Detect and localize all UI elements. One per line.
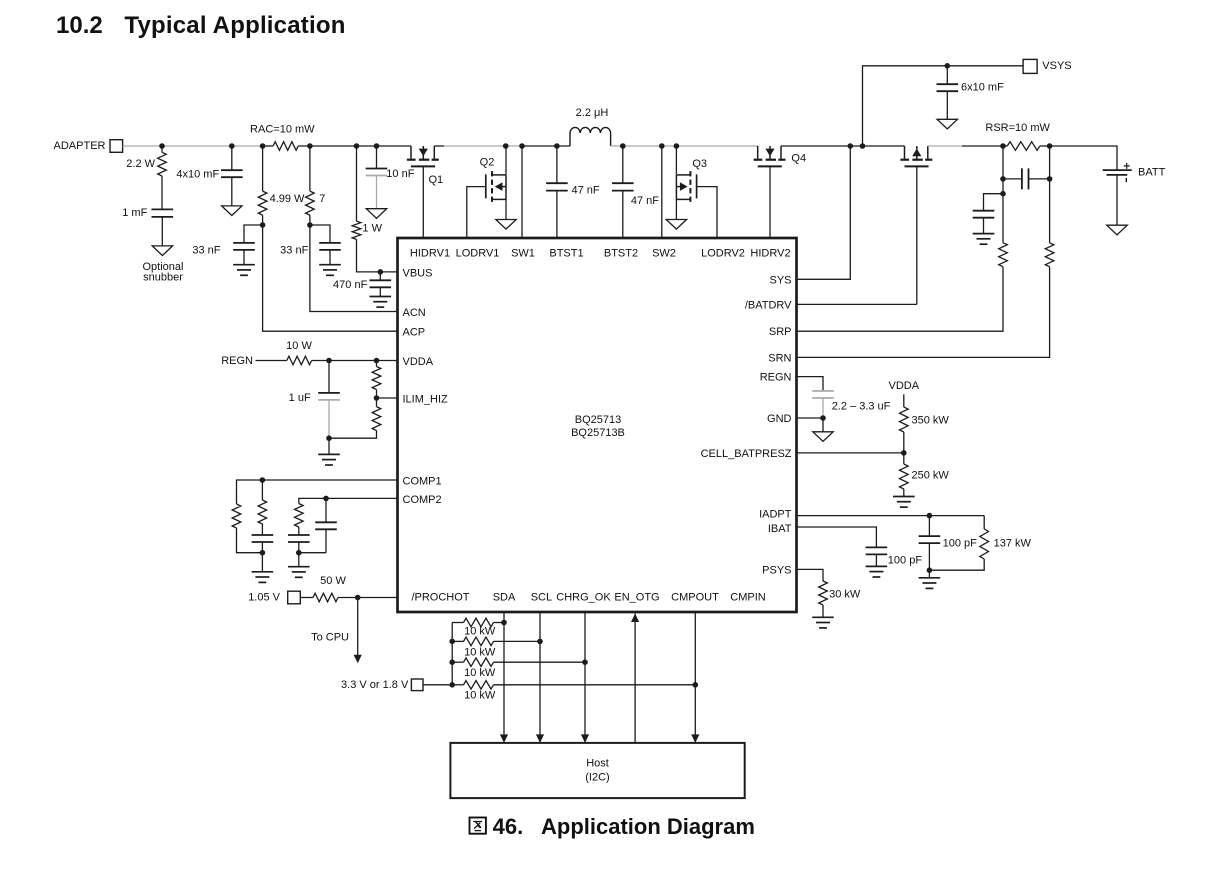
svg-text:BQ25713B: BQ25713B [571, 427, 625, 439]
resistor SRP series [999, 243, 1008, 267]
resistor 10 kW CHRG_OK [464, 658, 494, 667]
caption figure 46 [470, 814, 755, 839]
node SRN cap junction [1047, 176, 1053, 182]
svg-text:ADAPTER: ADAPTER [54, 140, 106, 152]
wire SRN [797, 267, 1050, 358]
wire SRP [797, 267, 1004, 332]
pin label CMPOUT [671, 592, 719, 604]
svg-text:33 nF: 33 nF [280, 245, 308, 257]
svg-text:SW2: SW2 [652, 248, 676, 260]
capacitor 47 nF b [612, 183, 634, 190]
svg-text:HIDRV1: HIDRV1 [410, 248, 450, 260]
node rail-1W junction [354, 143, 360, 149]
node IADPT ground junction [927, 567, 933, 573]
transistor Q4 [754, 146, 786, 166]
wire COMP1 [237, 480, 398, 504]
label RSR=10 mW [985, 122, 1050, 134]
node rail-bulkcap junction [229, 143, 235, 149]
pin label CMPIN [730, 592, 766, 604]
wire VSYS riser [863, 66, 1023, 146]
svg-text:VSYS: VSYS [1042, 60, 1071, 72]
wire Q3 drain [675, 146, 677, 175]
wire RSR leads [1003, 145, 1050, 147]
svg-text:CHRG_OK: CHRG_OK [556, 592, 611, 604]
pin label BTST2 [604, 248, 638, 260]
resistor COMP1 a [232, 504, 241, 528]
node IADPT junction [927, 513, 933, 519]
svg-text:10 kW: 10 kW [464, 646, 496, 658]
node Q3 drain junction [674, 143, 680, 149]
node SYS rail junction [848, 143, 854, 149]
node VSYS cap junction [945, 63, 951, 69]
node VDDA cap junction [326, 358, 332, 364]
wire IBAT [797, 527, 877, 547]
svg-text:4x10 mF: 4x10 mF [176, 168, 219, 180]
ground snubber [152, 246, 172, 256]
wire Q1 gate to HIDRV1 [422, 166, 424, 238]
node ACP filter junction [260, 222, 266, 228]
pin label HIDRV2 [750, 248, 790, 260]
resistor 250 kW [900, 464, 909, 489]
wire pull-up row SCL [452, 640, 540, 642]
wire 1W branch upper [356, 146, 358, 221]
node GND junction [820, 415, 826, 421]
svg-text:LODRV2: LODRV2 [701, 248, 745, 260]
wire COMP2 bottom link [299, 552, 326, 554]
svg-text:GND: GND [767, 413, 792, 425]
node RSR left junction [1000, 143, 1006, 149]
wire PSYS [797, 569, 824, 581]
svg-text:VBUS: VBUS [403, 267, 433, 279]
inductor 2.2 uH [570, 127, 611, 146]
ground 33 nF a [233, 265, 255, 276]
capacitor 47 nF a [546, 183, 568, 190]
resistor 7 [306, 191, 315, 215]
wire 33 nF b to ground [329, 250, 331, 265]
wire pull-up bus [451, 623, 453, 685]
label 33 nF a [192, 245, 220, 257]
capacitor 33 nF a [233, 243, 255, 250]
pin label SCL [531, 592, 552, 604]
arrow EN_OTG into IC [631, 614, 639, 623]
wire Q2 drain [505, 146, 507, 175]
wire COMP2 a lower [298, 542, 300, 553]
resistor ILIM upper [372, 367, 381, 390]
pin label SW2 [652, 248, 676, 260]
pin label SW1 [511, 248, 535, 260]
resistor RAC [273, 142, 298, 151]
wire Q2 gate to LODRV1 [467, 187, 486, 238]
node pull-up bus junction 3 [449, 682, 455, 688]
pin label SRN [768, 352, 791, 364]
wire SW1 [521, 146, 523, 238]
wire COMP2 [299, 498, 398, 503]
label Host (I2C) [585, 757, 609, 783]
wire ILIM mid [376, 390, 378, 407]
node SDA junction [501, 620, 507, 626]
wire COMP1 cap lower [261, 542, 263, 553]
wire COMP1 a lower [237, 528, 263, 553]
label 10 kW SCL [464, 646, 496, 658]
resistor 30 kW [819, 581, 828, 605]
node 1 uF bottom junction [326, 435, 332, 441]
resistor SRN series [1045, 243, 1054, 267]
wire CELL_BATPRESZ [797, 452, 904, 454]
label 2.2 W [126, 158, 155, 170]
arrow to CPU [354, 655, 362, 664]
label 1 W [362, 222, 382, 234]
svg-text:137 kW: 137 kW [994, 538, 1032, 550]
wire ACN branch upper [309, 146, 311, 191]
svg-text:IBAT: IBAT [768, 523, 792, 535]
wire rail to BATT [1050, 146, 1117, 170]
resistor 10 W [287, 356, 312, 365]
wire IADPT cap stub [928, 516, 930, 537]
wire COMP1 to ground [261, 553, 263, 572]
wire COMP1 b upper [261, 480, 263, 500]
node ADAPTER terminal [54, 140, 123, 153]
svg-text:1 mF: 1 mF [122, 207, 147, 219]
wire BTST2 lower [622, 191, 624, 238]
svg-text:10 kW: 10 kW [464, 667, 496, 679]
wire /BATDRV [797, 303, 917, 305]
label Optional snubber [143, 261, 184, 284]
label 1 uF [289, 392, 311, 404]
arrow SDA into host [500, 734, 508, 743]
wire 1 uF to ground [328, 438, 330, 454]
capacitor 1 mF [152, 209, 174, 217]
svg-text:350 kW: 350 kW [912, 415, 950, 427]
node SCL junction [537, 639, 543, 645]
wire COMP1 b mid [261, 524, 263, 535]
label 6x10 mF [961, 82, 1004, 94]
label 50 W [320, 575, 346, 587]
pin label BTST1 [549, 248, 583, 260]
svg-text:LODRV1: LODRV1 [456, 248, 500, 260]
svg-text:BTST2: BTST2 [604, 248, 638, 260]
ground GND pin [813, 432, 833, 442]
label 1 mF [122, 207, 147, 219]
svg-text:6x10 mF: 6x10 mF [961, 82, 1004, 94]
pin label REGN [760, 372, 792, 384]
svg-text:10 nF: 10 nF [386, 168, 414, 180]
svg-text:2.2 μH: 2.2 μH [576, 107, 609, 119]
resistor 350 kW [900, 407, 909, 432]
svg-text:1.05 V: 1.05 V [248, 591, 280, 603]
pin label VBUS [403, 267, 433, 279]
wire VDDA to 350k [903, 394, 905, 407]
node VDDA divider junction [374, 358, 380, 364]
wire ACN branch lower [310, 215, 398, 311]
pin label LODRV1 [456, 248, 500, 260]
svg-text:REGN: REGN [760, 372, 792, 384]
resistor COMP1 b [258, 500, 267, 524]
node PROCHOT junction [355, 595, 361, 601]
wire pull-up row CMPOUT [452, 684, 695, 686]
wire sense cap left lead [1003, 178, 1022, 180]
wire SRN vertical upper [1049, 146, 1051, 243]
label net REGN [221, 355, 253, 367]
wire 10 nF to ground (gray) [376, 176, 378, 209]
wire rail SW1 to inductor [522, 145, 570, 147]
svg-text:REGN: REGN [221, 355, 253, 367]
svg-text:RSR=10 mW: RSR=10 mW [985, 122, 1050, 134]
label IADPT 100 pF [943, 538, 978, 550]
label IBAT 100 pF [888, 555, 923, 567]
pin label HIDRV1 [410, 248, 450, 260]
svg-text:1 uF: 1 uF [289, 392, 311, 404]
svg-text:10 kW: 10 kW [464, 626, 496, 638]
node ILIM junction [374, 395, 380, 401]
wire 33 nF a to ground [243, 250, 245, 265]
svg-text:Host: Host [586, 757, 609, 769]
arrow CHRG_OK into host [581, 734, 589, 743]
pin label CELL_BATPRESZ [701, 448, 792, 460]
wire cap to ground [161, 217, 163, 246]
wire IADPT [797, 515, 985, 517]
capacitor 470 nF [370, 280, 392, 287]
capacitor 4x10 mF [221, 170, 243, 177]
wire 137k lower [929, 559, 984, 570]
wire pull-up row SDA [452, 622, 504, 624]
wire 6x10 mF stub [946, 66, 948, 84]
svg-text:SRN: SRN [768, 352, 791, 364]
svg-text:BQ25713: BQ25713 [575, 414, 621, 426]
node COMP2 junction [323, 496, 329, 502]
node 1.05 V terminal [248, 591, 300, 604]
wire BTST1 lower [556, 191, 558, 238]
wire COMP2 r lower [298, 527, 300, 535]
wire SDA to host [503, 612, 505, 743]
wire rail Q1 to SW1 (gray) [434, 145, 522, 147]
svg-text:CELL_BATPRESZ: CELL_BATPRESZ [701, 448, 792, 460]
arrow SCL into host [536, 734, 544, 743]
label BATT [1138, 167, 1166, 179]
wire 30k to ground [822, 605, 824, 617]
wire rail RAC to Q1 [263, 145, 411, 147]
ground Q2 [496, 220, 516, 230]
ground 30 kW [812, 617, 834, 628]
node RSR right junction [1047, 143, 1053, 149]
svg-text:Q3: Q3 [692, 158, 707, 170]
svg-text:BATT: BATT [1138, 167, 1166, 179]
pin label EN_OTG [614, 592, 659, 604]
op-amp U1 charger IC BQ25713 body [398, 238, 797, 612]
wire Q4 gate to HIDRV2 [769, 166, 771, 238]
wire 1.05V to 50W [300, 597, 313, 599]
label 350 kW [912, 415, 950, 427]
node VBUS junction [378, 269, 384, 275]
pin label CHRG_OK [556, 592, 611, 604]
wire GND pin [797, 417, 824, 419]
capacitor 10 nF [366, 169, 388, 176]
wire resistor to cap [161, 176, 163, 209]
transistor Q3 [676, 171, 696, 202]
resistor COMP2 [295, 504, 304, 528]
resistor 2.2 W [158, 152, 167, 176]
svg-text:CMPIN: CMPIN [730, 592, 766, 604]
resistor 10 kW SCL [464, 637, 494, 646]
node pull-up bus junction 2 [449, 659, 455, 665]
ground Q3 [666, 220, 686, 230]
label 137 kW [994, 538, 1032, 550]
label To CPU [311, 632, 349, 644]
label 4x10 mF [176, 168, 219, 180]
wire SRP side cap [984, 194, 1004, 211]
wire IBAT cap to ground [875, 554, 877, 566]
label 250 kW [912, 470, 950, 482]
node rail-BTST2 junction [620, 143, 626, 149]
wire COMP2 b lower [325, 529, 327, 552]
wire IADPT cap lower [928, 543, 930, 570]
wire ACP branch lower [263, 215, 398, 331]
svg-text:/BATDRV: /BATDRV [745, 299, 792, 311]
wire bulk cap stub [231, 146, 233, 170]
svg-text:3.3 V or 1.8 V: 3.3 V or 1.8 V [341, 679, 409, 691]
node rail-snubber junction [159, 143, 165, 149]
pin label LODRV2 [701, 248, 745, 260]
label 33 nF b [280, 245, 308, 257]
ground IADPT [919, 578, 941, 589]
wire divider bottom [329, 431, 377, 439]
node COMP1 junction [260, 477, 266, 483]
pin label IBAT [768, 523, 792, 535]
ground 33 nF b [319, 265, 341, 276]
node SRP side junction [1000, 191, 1006, 197]
wire SCL to host [539, 612, 541, 743]
svg-text:46.: 46. [493, 814, 524, 839]
label 2.2 uH [576, 107, 609, 119]
capacitor SRP filter [973, 211, 995, 218]
node rail-SW2 junction [659, 143, 665, 149]
label net VDDA [889, 380, 920, 392]
svg-text:4.99 W: 4.99 W [270, 193, 305, 205]
wire 6x10 mF to ground [946, 91, 948, 119]
pin label SRP [769, 326, 792, 338]
ground 6x10 mF [937, 119, 957, 129]
wire Q2 source to ground [505, 199, 507, 219]
node COMP1 ground junction [260, 550, 266, 556]
svg-text:250 kW: 250 kW [912, 470, 950, 482]
label Q4 [791, 152, 806, 164]
svg-text:HIDRV2: HIDRV2 [750, 248, 790, 260]
node rail-10nF junction [374, 143, 380, 149]
wire snubber stub [161, 146, 163, 152]
wire SRP vertical upper [1002, 146, 1004, 243]
label 470 nF [333, 279, 368, 291]
ground SRP filter [973, 234, 995, 245]
svg-text:/PROCHOT: /PROCHOT [411, 592, 469, 604]
wire CELL to 250k [903, 453, 905, 464]
ground IBAT [866, 566, 888, 577]
pin label /BATDRV [745, 299, 792, 311]
host block [450, 743, 744, 798]
transistor Q2 [486, 171, 506, 202]
svg-text:47 nF: 47 nF [631, 195, 659, 207]
resistor 4.99 W [258, 191, 267, 215]
wire ACP branch upper [262, 146, 264, 191]
node rail-BTST1 junction [554, 143, 560, 149]
label RAC=10 mW [250, 124, 315, 136]
pin label ACP [403, 327, 426, 339]
resistor 50 W [313, 593, 338, 602]
wire REGN to 10W [256, 360, 287, 362]
label 2.2-3.3 uF [832, 401, 891, 413]
svg-text:VDDA: VDDA [403, 356, 434, 368]
ground 250 kW [893, 497, 915, 508]
wire rail Q4 to battery FET [781, 145, 905, 147]
svg-text:1 W: 1 W [362, 222, 382, 234]
node VSYS terminal [1023, 59, 1072, 73]
resistor 10 kW SDA [464, 618, 494, 627]
capacitor IADPT 100 pF [919, 536, 941, 543]
svg-text:SRP: SRP [769, 326, 792, 338]
ground BATT [1107, 225, 1127, 235]
svg-text:2.2 – 3.3 uF: 2.2 – 3.3 uF [832, 401, 891, 413]
wire 1 uF lower (gray) [328, 400, 330, 438]
label 47 nF b [631, 195, 659, 207]
wire bulk cap to ground [231, 177, 233, 206]
wire COMP2 to ground [298, 553, 300, 567]
svg-text:SYS: SYS [769, 274, 791, 286]
svg-text:Q1: Q1 [429, 174, 444, 186]
label 10 kW CMPOUT [464, 690, 496, 702]
resistor 137 kW [980, 529, 989, 559]
svg-text:PSYS: PSYS [762, 564, 791, 576]
wire sense cap right lead [1029, 178, 1050, 180]
svg-text:50 W: 50 W [320, 575, 346, 587]
wire VBUS cap stub [379, 272, 381, 280]
svg-text:47 nF: 47 nF [572, 184, 600, 196]
pin label ACN [403, 307, 426, 319]
capacitor 1 uF [318, 393, 340, 400]
wire 50W to PROCHOT pin [338, 597, 398, 599]
node rail-ACN junction [307, 143, 313, 149]
wire rail inductor to Q3 (gray) [611, 145, 758, 147]
wire 3.3V to bus [423, 684, 452, 686]
node COMP2 ground junction [296, 550, 302, 556]
node Q2 drain junction [503, 143, 509, 149]
svg-text:100 pF: 100 pF [888, 555, 923, 567]
svg-text:Typical Application: Typical Application [124, 12, 345, 39]
label 4.99 W [270, 193, 305, 205]
label 10 W [286, 340, 312, 352]
wire SW2 [661, 146, 663, 238]
svg-text:2.2 W: 2.2 W [126, 158, 155, 170]
svg-text:10 kW: 10 kW [464, 690, 496, 702]
svg-text:470 nF: 470 nF [333, 279, 368, 291]
node rail-SW1 junction [519, 143, 525, 149]
node CELL junction [901, 450, 907, 456]
svg-text:33 nF: 33 nF [192, 245, 220, 257]
node VSYS rail junction [860, 143, 866, 149]
pin label /PROCHOT [411, 592, 469, 604]
wire SYS [797, 146, 851, 279]
capacitor sense filter [1022, 168, 1029, 189]
wire to cap 33 nF b [310, 225, 330, 243]
wire COMP2 b upper [325, 498, 327, 522]
wire battery FET gate to /BATDRV [916, 166, 918, 304]
svg-text:10.2: 10.2 [56, 12, 103, 39]
svg-text:30 kW: 30 kW [829, 589, 861, 601]
wire pull-up row CHRG_OK [452, 661, 585, 663]
svg-text:COMP1: COMP1 [403, 476, 442, 488]
svg-text:ACP: ACP [403, 327, 426, 339]
wire VBUS [357, 239, 398, 272]
svg-text:COMP2: COMP2 [403, 494, 442, 506]
node ACN filter junction [307, 222, 313, 228]
capacitor IBAT 100 pF [866, 547, 888, 554]
